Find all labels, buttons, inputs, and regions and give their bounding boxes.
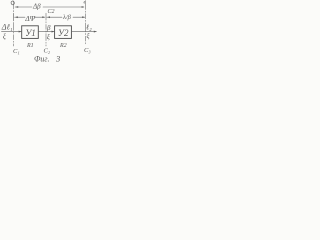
dimension λ/β xyxy=(47,16,85,18)
wire input xyxy=(2,31,22,33)
section line C3 xyxy=(84,1,86,45)
dimension Δβ xyxy=(15,6,85,8)
wire output xyxy=(71,31,96,33)
svg-text:R2: R2 xyxy=(59,43,67,49)
svg-text:β: β xyxy=(46,24,51,32)
svg-text:ΔΨ: ΔΨ xyxy=(24,14,35,23)
svg-text:Δβ: Δβ xyxy=(32,3,41,11)
svg-text:C₁: C₁ xyxy=(13,48,20,55)
svg-text:3: 3 xyxy=(55,54,60,64)
svg-text:R1: R1 xyxy=(26,43,34,49)
svg-text:ξ: ξ xyxy=(3,33,6,41)
svg-text:У1: У1 xyxy=(25,28,36,38)
svg-text:λ/β: λ/β xyxy=(62,14,72,21)
svg-text:Δℓ₁: Δℓ₁ xyxy=(1,22,13,31)
block U1 xyxy=(22,26,39,39)
svg-text:C2: C2 xyxy=(48,9,55,15)
wire U1-U2 xyxy=(38,31,54,33)
block U2 xyxy=(55,26,72,39)
svg-text:C₂: C₂ xyxy=(44,48,51,55)
svg-text:Фиг.: Фиг. xyxy=(34,55,49,64)
svg-text:C₃: C₃ xyxy=(84,47,91,54)
dimension ΔΨ xyxy=(14,14,46,21)
section line C1 xyxy=(11,1,15,46)
svg-text:У2: У2 xyxy=(58,28,69,38)
svg-text:ξ: ξ xyxy=(47,33,50,41)
svg-text:ξ: ξ xyxy=(87,32,90,40)
svg-text:ℓ₂: ℓ₂ xyxy=(86,22,92,31)
section line C2 xyxy=(45,13,47,46)
